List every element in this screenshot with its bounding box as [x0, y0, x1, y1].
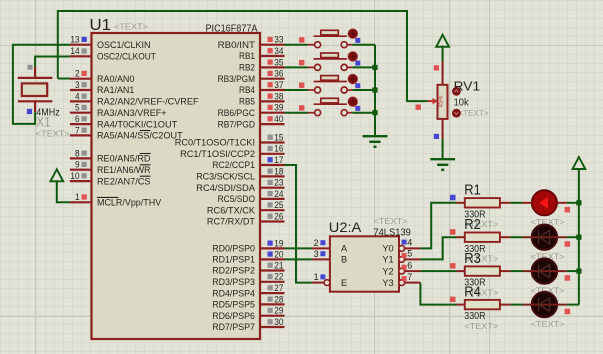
- svg-text:E: E: [341, 278, 347, 288]
- node OSC1 state square: [27, 109, 32, 114]
- svg-text:2: 2: [314, 238, 319, 248]
- U1 pin 6 (RA4/T0CKI/C1OUT): [70, 123, 92, 125]
- push button 2: [308, 53, 353, 70]
- U1 pin 24 (RC5/SDO): [260, 198, 285, 200]
- svg-text:RB2: RB2: [239, 63, 255, 73]
- button 1 left net state square: [299, 37, 304, 42]
- U2 enable input E pin 1: [312, 282, 324, 284]
- svg-text:13: 13: [70, 35, 79, 45]
- U1 pin 40 (RB7/PGD): [260, 123, 285, 125]
- svg-text:RB5: RB5: [239, 97, 255, 107]
- U1 pin 30 (RD7/PSP7): [260, 326, 285, 328]
- svg-text:RB0/INT: RB0/INT: [218, 40, 256, 50]
- svg-text:X1: X1: [36, 113, 51, 129]
- wire RB pin to button: [285, 89, 308, 91]
- U1 pin 15 (RC0/T1OSO/T1CKI): [260, 141, 285, 143]
- svg-text:24: 24: [274, 189, 283, 199]
- power symbol VCC at LED rail: [573, 157, 586, 169]
- U1 pin 36 (RB3/PGM): [260, 78, 285, 80]
- svg-text:Y1: Y1: [382, 255, 393, 265]
- wire button to ground rail: [352, 89, 375, 91]
- U1 pin 29 (RD6/PSP6): [260, 315, 285, 317]
- wire VCC to MCLR: [57, 180, 70, 202]
- svg-text:<TEXT>: <TEXT>: [114, 22, 148, 32]
- wire button to ground rail: [352, 112, 375, 114]
- wire button 1 to ground rail: [352, 44, 375, 46]
- U1 pin 10 (RE2/AN7/CS): [70, 180, 92, 182]
- U2 output Y0 pin 4: [399, 246, 405, 252]
- wire LED to power rail: [567, 202, 579, 204]
- U1 pin 17 (RC2/CCP1): [260, 164, 285, 166]
- svg-text:27: 27: [274, 283, 283, 293]
- svg-text:PIC16F877A: PIC16F877A: [206, 23, 258, 34]
- svg-text:28: 28: [274, 294, 283, 304]
- junction: [372, 87, 377, 92]
- svg-text:4: 4: [75, 91, 80, 101]
- svg-text:29: 29: [274, 306, 283, 316]
- U2 input A pin 2: [312, 247, 330, 249]
- svg-text:7: 7: [407, 272, 412, 282]
- svg-text:Y3: Y3: [382, 278, 393, 288]
- svg-text:OSC2/CLKOUT: OSC2/CLKOUT: [97, 52, 156, 62]
- svg-text:R2: R2: [464, 217, 481, 233]
- wire Y3 to R4: [420, 283, 456, 305]
- wire Y0 to R1: [420, 203, 456, 249]
- svg-text:RC7/RX/DT: RC7/RX/DT: [207, 217, 255, 227]
- wire RB pin to button: [285, 44, 308, 46]
- push button 4: [308, 98, 353, 115]
- junction: [576, 269, 581, 274]
- push button 3: [308, 76, 353, 93]
- U1 pin 2 (RA0/AN0): [70, 78, 92, 80]
- svg-text:RA3/AN3/VREF+: RA3/AN3/VREF+: [97, 108, 167, 118]
- svg-text:U2:A: U2:A: [329, 219, 362, 235]
- svg-text:RD0/PSP0: RD0/PSP0: [212, 244, 255, 254]
- wire LED to power rail: [567, 236, 579, 238]
- svg-text:RC3/SCK/SCL: RC3/SCK/SCL: [196, 172, 255, 182]
- junction: [372, 65, 377, 70]
- svg-text:RA2/AN2/VREF-/CVREF: RA2/AN2/VREF-/CVREF: [97, 97, 199, 107]
- RV1 increment button: [452, 87, 461, 96]
- svg-text:3: 3: [75, 80, 80, 90]
- LED D4 anode net state square: [565, 309, 571, 315]
- svg-text:MCLR/Vpp/THV: MCLR/Vpp/THV: [97, 198, 162, 208]
- svg-text:RC5/SDO: RC5/SDO: [218, 194, 255, 204]
- R4 input net state square: [450, 297, 456, 303]
- svg-text:Y0: Y0: [382, 244, 393, 254]
- svg-text:RA5/AN4/SS/C2OUT: RA5/AN4/SS/C2OUT: [97, 131, 183, 141]
- svg-text:1: 1: [314, 272, 319, 282]
- wire RD0 to U2 A: [285, 247, 312, 249]
- svg-text:74LS139: 74LS139: [373, 227, 411, 238]
- U1 pin 13 (OSC1/CLKIN): [70, 44, 92, 46]
- U1 pin 9 (RE1/AN6/WR): [70, 169, 92, 171]
- wire resistor to LED: [511, 304, 523, 306]
- U1 pin 37 (RB4): [260, 89, 285, 91]
- junction: [576, 235, 581, 240]
- svg-text:<TEXT>: <TEXT>: [459, 108, 489, 118]
- junction: [576, 200, 581, 205]
- svg-text:R1: R1: [464, 183, 481, 199]
- LED D4: [532, 292, 557, 317]
- svg-text:<TEXT>: <TEXT>: [531, 319, 565, 329]
- button 2 right net state square: [355, 61, 360, 66]
- svg-text:16: 16: [274, 144, 283, 154]
- U1 pin 19 (RD0/PSP0): [260, 247, 285, 249]
- svg-text:RE2/AN7/CS: RE2/AN7/CS: [97, 176, 151, 186]
- resistor R4 330R: [457, 304, 465, 306]
- svg-text:R3: R3: [464, 251, 481, 267]
- svg-text:R4: R4: [464, 284, 481, 300]
- button 3 right net state square: [355, 83, 360, 88]
- svg-text:RD7/PSP7: RD7/PSP7: [212, 322, 255, 332]
- svg-text:22: 22: [274, 272, 283, 282]
- wire OSC2 to crystal: [35, 57, 70, 68]
- svg-text:6: 6: [75, 114, 80, 124]
- svg-text:RE1/AN6/WR: RE1/AN6/WR: [97, 165, 151, 175]
- wire button to ground rail: [352, 66, 375, 68]
- wire LED to power rail: [567, 270, 579, 272]
- svg-text:RC0/T1OSO/T1CKI: RC0/T1OSO/T1CKI: [175, 138, 255, 148]
- wire resistor to LED: [511, 270, 523, 272]
- svg-text:RA4/T0CKI/C1OUT: RA4/T0CKI/C1OUT: [97, 119, 178, 129]
- U1 pin 23 (RC4/SDI/SDA): [260, 187, 285, 189]
- svg-text:<TEXT>: <TEXT>: [374, 216, 408, 226]
- U2 output Y3 pin 7: [399, 280, 405, 286]
- U1 pin 35 (RB2): [260, 66, 285, 68]
- svg-text:19: 19: [274, 238, 283, 248]
- svg-text:39: 39: [274, 103, 283, 113]
- svg-text:RD3/PSP3: RD3/PSP3: [212, 277, 255, 287]
- U1 pin 21 (RD2/PSP2): [260, 269, 285, 271]
- U1 pin 39 (RB6/PGC): [260, 112, 285, 114]
- svg-text:34: 34: [274, 46, 283, 56]
- button 4 left net state square: [299, 105, 304, 110]
- svg-text:15: 15: [274, 132, 283, 142]
- button 2 left net state square: [299, 60, 304, 65]
- resistor R1 330R: [457, 202, 465, 204]
- svg-text:6: 6: [407, 260, 412, 270]
- svg-text:RC2/CCP1: RC2/CCP1: [212, 160, 255, 170]
- svg-text:26: 26: [274, 211, 283, 221]
- power symbol VCC at MCLR: [50, 169, 63, 181]
- svg-text:RB4: RB4: [239, 85, 255, 95]
- wire button ground rail: [374, 45, 376, 136]
- svg-text:B: B: [341, 255, 347, 265]
- svg-text:2: 2: [75, 69, 80, 79]
- svg-text:5: 5: [75, 103, 80, 113]
- svg-text:RD4/PSP4: RD4/PSP4: [212, 288, 255, 298]
- potentiometer RV1: [442, 62, 444, 85]
- R2 input net state square: [450, 229, 456, 235]
- svg-text:RB1: RB1: [239, 51, 255, 61]
- LED D2: [532, 225, 557, 250]
- wire RB pin to button: [285, 112, 308, 114]
- microcontroller U1 PIC16F877A body: [92, 33, 261, 339]
- svg-text:<TEXT>: <TEXT>: [36, 129, 70, 139]
- svg-text:23: 23: [274, 178, 283, 188]
- wire VCC to RV1: [442, 46, 444, 62]
- RV1 top net state square: [434, 65, 439, 70]
- U1 pin 18 (RC3/SCK/SCL): [260, 175, 285, 177]
- U1 pin 5 (RA3/AN3/VREF+): [70, 112, 92, 114]
- svg-text:RD1/PSP1: RD1/PSP1: [212, 255, 255, 265]
- svg-text:330R: 330R: [464, 311, 485, 322]
- push button 1: [308, 30, 353, 47]
- button 3 left net state square: [299, 83, 304, 88]
- svg-text:3: 3: [314, 249, 319, 259]
- wire RC2 to U2 enable: [285, 165, 312, 283]
- svg-text:4: 4: [407, 238, 412, 248]
- svg-text:RD5/PSP5: RD5/PSP5: [212, 300, 255, 310]
- svg-text:Y2: Y2: [382, 266, 393, 276]
- svg-text:RA1/AN1: RA1/AN1: [97, 85, 134, 95]
- svg-text:A: A: [341, 244, 348, 254]
- junction: [372, 110, 377, 115]
- decoder U2:A 74LS139 body: [330, 236, 399, 291]
- R1 input net state square: [450, 195, 456, 201]
- wire resistor to LED: [511, 236, 523, 238]
- svg-text:OSC1/CLKIN: OSC1/CLKIN: [97, 40, 151, 50]
- ground under RV1: [430, 159, 455, 170]
- U1 pin 1 (MCLR/Vpp/THV): [70, 201, 92, 203]
- svg-text:9: 9: [75, 160, 80, 170]
- wire RV1 to ground: [442, 139, 444, 159]
- svg-text:U1: U1: [90, 17, 112, 34]
- svg-text:25: 25: [274, 200, 283, 210]
- U1 pin 3 (RA1/AN1): [70, 89, 92, 91]
- U1 pin 20 (RD1/PSP1): [260, 258, 285, 260]
- svg-text:20: 20: [274, 249, 283, 259]
- svg-text:33: 33: [274, 35, 283, 45]
- crystal X1: [18, 67, 53, 112]
- wire RB pin to button: [285, 66, 308, 68]
- svg-text:RA0/AN0: RA0/AN0: [97, 74, 134, 84]
- svg-text:17: 17: [274, 155, 283, 165]
- U2 output Y1 pin 5: [399, 257, 405, 263]
- U1 pin 16 (RC1/T1OSI/CCP2): [260, 153, 285, 155]
- svg-text:RE0/AN5/RD: RE0/AN5/RD: [97, 154, 151, 164]
- wire resistor to LED: [511, 202, 523, 204]
- svg-text:RB7/PGD: RB7/PGD: [218, 119, 256, 129]
- svg-text:18: 18: [274, 166, 283, 176]
- wire RA0 net to RV1 wiper: [58, 11, 428, 101]
- LED D1: [532, 190, 557, 215]
- wire Y2 to R3: [420, 270, 456, 272]
- R3 input net state square: [450, 263, 456, 269]
- RV1 wiper arrow: [428, 100, 433, 102]
- LED D3 anode net state square: [565, 275, 571, 281]
- U2 input B pin 3: [312, 258, 330, 260]
- U1 pin 4 (RA2/AN2/VREF-/CVREF): [70, 100, 92, 102]
- U1 pin 7 (RA5/AN4/SS/C2OUT): [70, 134, 92, 136]
- U1 pin 28 (RD5/PSP5): [260, 303, 285, 305]
- svg-text:36: 36: [274, 69, 283, 79]
- U1 pin 25 (RC6/TX/CK): [260, 209, 285, 211]
- button 4 right net state square: [355, 106, 360, 111]
- svg-text:RD6/PSP6: RD6/PSP6: [212, 311, 255, 321]
- svg-text:14: 14: [70, 46, 79, 56]
- resistor R3 330R: [457, 270, 465, 272]
- power symbol VCC at RV1: [436, 35, 449, 47]
- LED D3: [532, 259, 557, 284]
- U2 output Y2 pin 6: [399, 268, 405, 274]
- svg-text:RD2/PSP2: RD2/PSP2: [212, 266, 255, 276]
- wire to RA0 pin: [58, 78, 70, 80]
- U1 pin 34 (RB1): [260, 55, 285, 57]
- svg-text:30: 30: [274, 317, 283, 327]
- wire LED to power rail: [567, 304, 579, 306]
- svg-text:RC6/TX/CK: RC6/TX/CK: [207, 205, 256, 215]
- svg-text:10: 10: [70, 171, 79, 181]
- svg-text:<TEXT>: <TEXT>: [464, 321, 498, 331]
- button 1 right net state square: [355, 38, 360, 43]
- wire Y1 to R2: [420, 237, 456, 259]
- RV1 decrement button: [452, 109, 461, 118]
- RV1 bottom net state square: [434, 134, 439, 139]
- node OSC2 state square: [28, 65, 33, 70]
- svg-text:RC1/T1OSI/CCP2: RC1/T1OSI/CCP2: [180, 149, 255, 159]
- svg-text:37: 37: [274, 80, 283, 90]
- U1 pin 22 (RD3/PSP3): [260, 281, 285, 283]
- svg-text:7: 7: [75, 125, 80, 135]
- svg-text:5: 5: [407, 249, 412, 259]
- svg-text:1: 1: [75, 192, 80, 202]
- U1 pin 8 (RE0/AN5/RD): [70, 157, 92, 159]
- svg-text:RB3/PGM: RB3/PGM: [218, 74, 255, 84]
- wire OSC1 to crystal: [13, 45, 70, 124]
- U1 pin 26 (RC7/RX/DT): [260, 220, 285, 222]
- wire LED power rail: [578, 169, 580, 305]
- svg-text:45%: 45%: [439, 95, 445, 108]
- ground under buttons: [363, 136, 388, 147]
- U1 pin 33 (RB0/INT): [260, 44, 285, 46]
- RV1 wiper net state square: [416, 105, 421, 110]
- svg-text:38: 38: [274, 91, 283, 101]
- svg-text:RB6/PGC: RB6/PGC: [218, 108, 256, 118]
- wire RD1 to U2 B: [285, 258, 312, 260]
- svg-text:35: 35: [274, 57, 283, 67]
- U1 pin 38 (RB5): [260, 100, 285, 102]
- LED D2 anode net state square: [565, 241, 571, 247]
- svg-text:21: 21: [274, 260, 283, 270]
- svg-text:40: 40: [274, 114, 283, 124]
- U1 pin 27 (RD4/PSP4): [260, 292, 285, 294]
- svg-text:RC4/SDI/SDA: RC4/SDI/SDA: [196, 183, 256, 193]
- U1 pin 14 (OSC2/CLKOUT): [70, 55, 92, 57]
- resistor R2 330R: [457, 236, 465, 238]
- svg-text:8: 8: [75, 148, 80, 158]
- LED D1 anode net state square: [565, 207, 571, 213]
